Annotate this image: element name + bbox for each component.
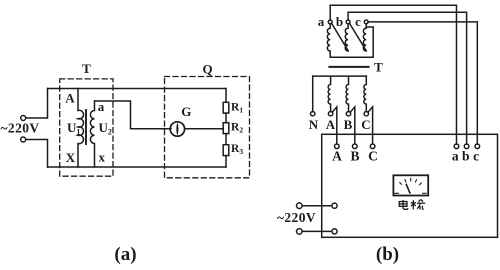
svg-text:b: b <box>462 149 470 164</box>
svg-text:U1: U1 <box>67 120 80 137</box>
svg-text:T: T <box>374 60 383 75</box>
svg-text:a: a <box>318 14 325 29</box>
svg-text:U2: U2 <box>99 120 112 137</box>
svg-text:N: N <box>309 117 319 132</box>
svg-text:~220V: ~220V <box>277 210 316 225</box>
svg-text:~220V: ~220V <box>1 121 40 136</box>
svg-text:A: A <box>326 117 336 132</box>
svg-text:a: a <box>452 149 459 164</box>
svg-text:G: G <box>181 104 191 119</box>
svg-text:c: c <box>355 14 361 29</box>
svg-text:A: A <box>65 91 75 106</box>
svg-text:a: a <box>98 99 105 114</box>
svg-text:R1: R1 <box>231 102 243 115</box>
svg-text:T: T <box>82 61 91 76</box>
svg-text:R2: R2 <box>231 121 243 134</box>
svg-text:X: X <box>66 150 76 165</box>
svg-text:b: b <box>336 14 343 29</box>
svg-text:(b): (b) <box>376 244 399 265</box>
svg-text:C: C <box>368 149 378 164</box>
svg-text:A: A <box>332 149 342 164</box>
svg-text:R3: R3 <box>231 143 243 156</box>
svg-text:B: B <box>350 149 359 164</box>
svg-text:(a): (a) <box>114 244 136 265</box>
svg-text:C: C <box>361 117 370 132</box>
svg-text:x: x <box>98 150 105 165</box>
svg-text:c: c <box>473 149 479 164</box>
svg-text:B: B <box>344 117 353 132</box>
svg-text:Q: Q <box>202 61 212 76</box>
